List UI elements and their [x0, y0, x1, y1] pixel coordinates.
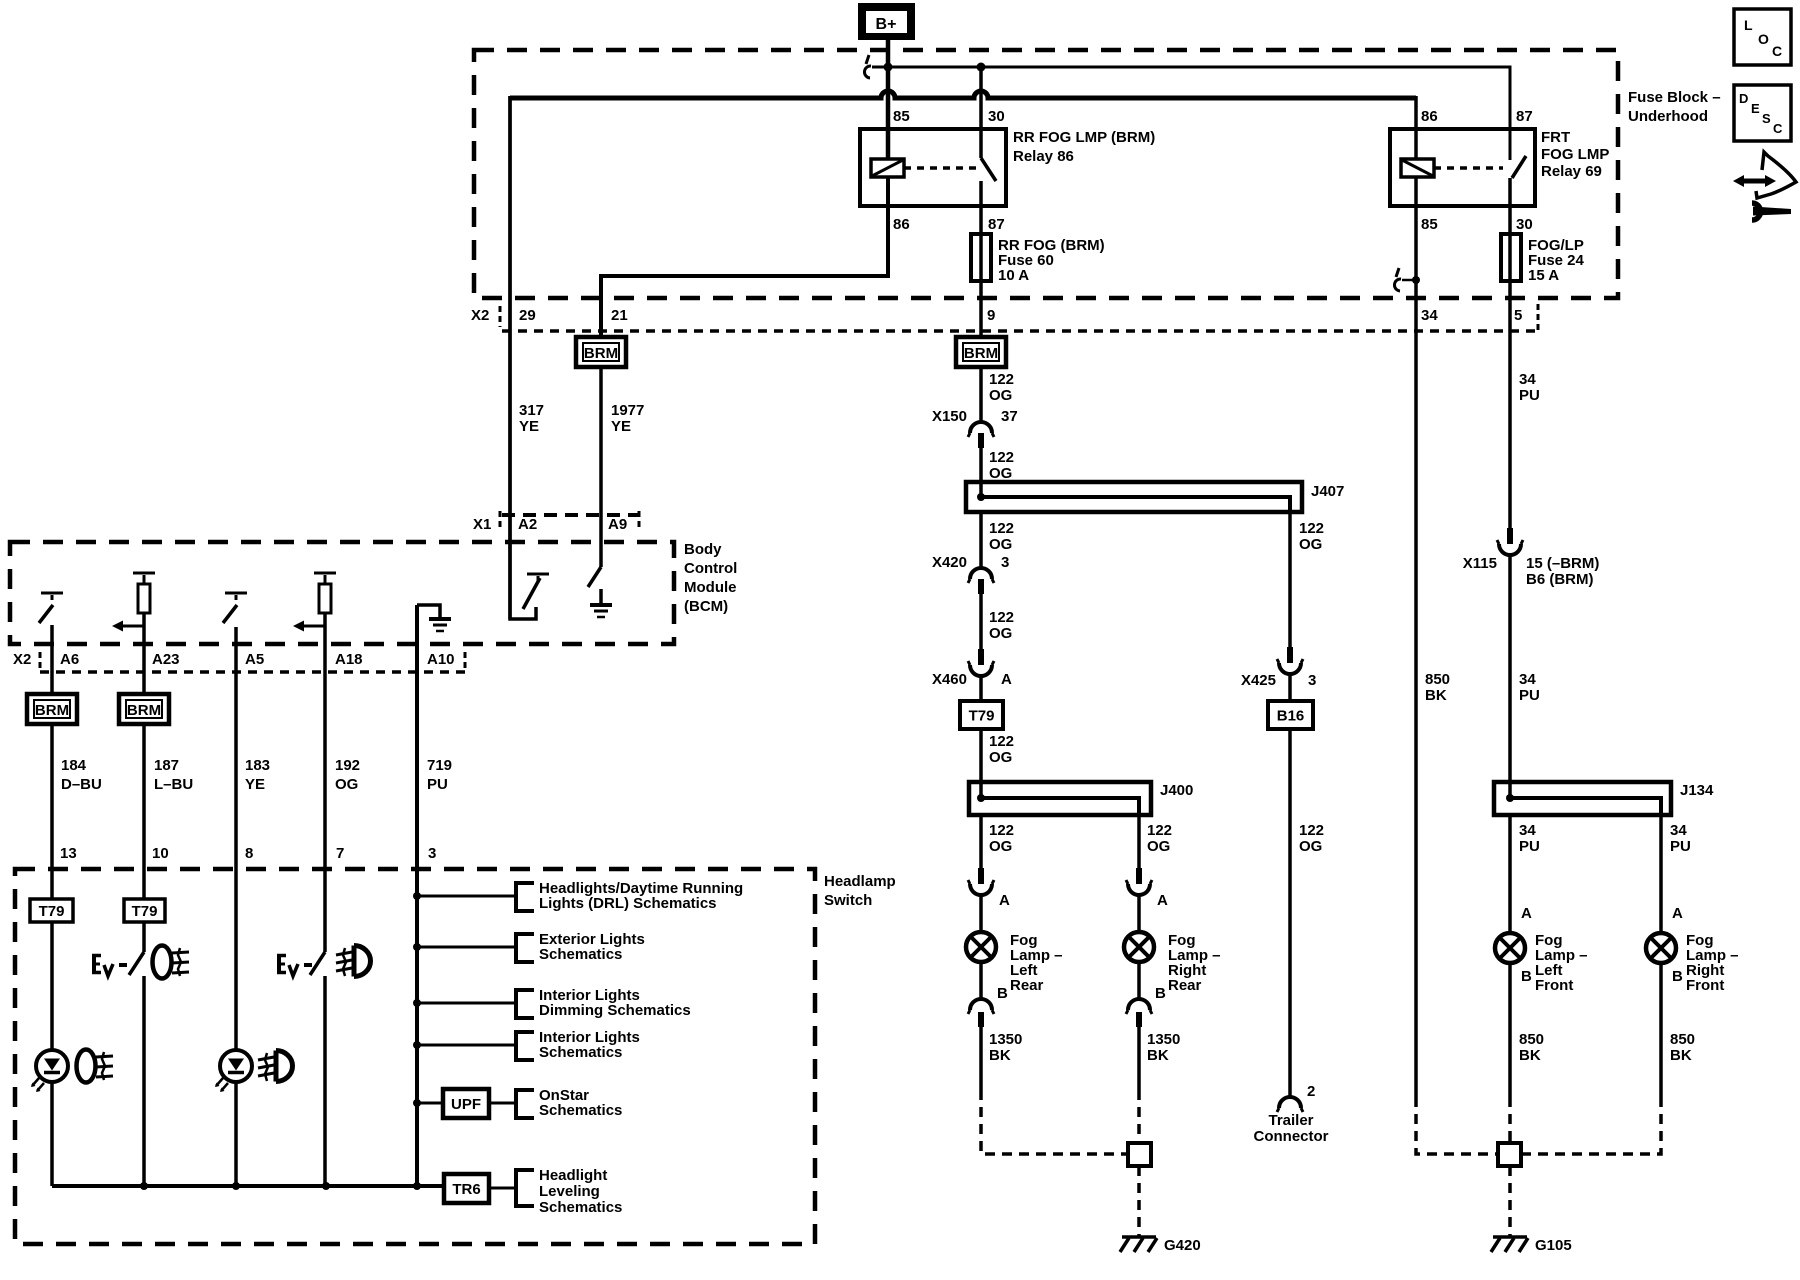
headlight symbol pin 13 — [77, 1050, 96, 1083]
svg-text:Underhood: Underhood — [1628, 108, 1708, 125]
connector fog lamp left rear pin B — [970, 999, 992, 1010]
wire relay 86 pin 87 to fuse 60 — [979, 181, 983, 337]
svg-text:BRM: BRM — [127, 702, 161, 719]
wire 850 BK right front — [1659, 963, 1663, 1097]
svg-text:Fuse Block –: Fuse Block – — [1628, 89, 1721, 106]
svg-text:D: D — [1739, 91, 1748, 106]
svg-text:29: 29 — [519, 307, 536, 324]
wire A10 down — [415, 605, 419, 1186]
svg-text:122: 122 — [1299, 822, 1324, 839]
BCM input A2 switch — [510, 96, 536, 619]
continuation hook at relay 69 pin 85 — [1396, 268, 1399, 277]
ground junction box G105 — [1498, 1143, 1521, 1166]
svg-text:YE: YE — [519, 418, 539, 435]
svg-text:850: 850 — [1425, 671, 1450, 688]
wire A23 to BRM — [143, 580, 146, 584]
svg-text:34: 34 — [1519, 822, 1536, 839]
svg-text:2: 2 — [1307, 1083, 1315, 1100]
connector X2 jog right — [1537, 304, 1540, 331]
wire pin 3 branch interior dimming — [417, 1002, 516, 1005]
svg-text:34: 34 — [1519, 371, 1536, 388]
terminal TR6 — [444, 1174, 489, 1203]
svg-text:5: 5 — [1514, 307, 1522, 324]
relay RR FOG LMP Relay 86 box — [860, 129, 1006, 206]
svg-text:T79: T79 — [39, 903, 65, 920]
connector X2 BCM jog right — [464, 652, 467, 672]
BCM driver A9 to ground — [588, 567, 601, 587]
wire B+ to relay 69 pin 87 — [872, 67, 1510, 160]
svg-text:15 (–BRM): 15 (–BRM) — [1526, 555, 1599, 572]
wire pin 3 branch OnStar — [417, 1102, 443, 1105]
wire relay 69 pin 85 down — [1414, 177, 1418, 1097]
terminal B16 — [1268, 701, 1313, 729]
icon LOC — [1734, 9, 1791, 65]
wire 1350 BK left rear — [979, 1027, 983, 1090]
connector fog lamp right rear pin B — [1128, 999, 1150, 1010]
splice pack J400 — [969, 782, 1151, 815]
svg-text:86: 86 — [893, 216, 910, 233]
svg-text:A6: A6 — [60, 651, 79, 668]
connector X2 strip dotted line — [502, 329, 1538, 333]
svg-text:YE: YE — [611, 418, 631, 435]
BCM output A23 driver — [133, 572, 155, 575]
terminal T79 pin 13 — [30, 899, 73, 922]
svg-text:192: 192 — [335, 757, 360, 774]
wire relay 86 coil feed bus with hops — [510, 91, 1416, 98]
svg-text:C: C — [1773, 121, 1783, 136]
svg-text:122: 122 — [989, 733, 1014, 750]
wire 34 PU right front — [1659, 815, 1663, 933]
svg-text:X115: X115 — [1463, 555, 1497, 572]
indicator LED pin 8 — [220, 1050, 252, 1082]
svg-text:1350: 1350 — [989, 1031, 1022, 1048]
svg-text:122: 122 — [1299, 520, 1324, 537]
svg-text:(BCM): (BCM) — [684, 598, 728, 615]
svg-text:L: L — [1744, 17, 1753, 33]
wire A5 down — [234, 627, 238, 1050]
svg-text:Schematics: Schematics — [539, 1044, 622, 1061]
svg-text:BK: BK — [1519, 1047, 1541, 1064]
dashed lead to G420 — [1137, 1166, 1141, 1236]
connector X1 jog left — [499, 511, 502, 529]
svg-text:122: 122 — [1147, 822, 1172, 839]
svg-text:Rear: Rear — [1168, 977, 1202, 994]
fuse 24 — [1501, 234, 1521, 281]
wire 122 OG to J400 — [979, 729, 983, 798]
connector X1 strip dashed line — [502, 513, 638, 517]
splice pack J134 — [1494, 782, 1671, 815]
fog lamp right front — [1646, 933, 1676, 963]
svg-text:10 A: 10 A — [998, 267, 1029, 284]
svg-text:OG: OG — [989, 625, 1012, 642]
terminal UPF — [443, 1089, 489, 1118]
connector X420 — [970, 568, 992, 579]
dashed jumper right front to G105 — [1521, 1097, 1661, 1154]
dashed jumper left front to G105 — [1508, 1097, 1512, 1143]
svg-text:BK: BK — [1670, 1047, 1692, 1064]
svg-text:PU: PU — [427, 776, 448, 793]
switch pin 7 — [310, 952, 325, 975]
svg-text:A: A — [1672, 905, 1683, 922]
indicator LED pin 13 — [36, 1050, 68, 1082]
svg-text:15 A: 15 A — [1528, 267, 1559, 284]
svg-text:B: B — [1155, 985, 1166, 1002]
connector X1 jog right — [638, 511, 641, 529]
svg-text:122: 122 — [989, 520, 1014, 537]
svg-text:B6 (BRM): B6 (BRM) — [1526, 571, 1594, 588]
svg-text:Headlamp: Headlamp — [824, 873, 896, 890]
connector fog lamp right rear pin A — [1136, 868, 1142, 884]
svg-text:C: C — [1772, 43, 1782, 59]
svg-text:37: 37 — [1001, 408, 1018, 425]
svg-text:13: 13 — [60, 845, 77, 862]
wire below right rear lamp — [1137, 962, 1141, 1001]
relay 86 coil — [871, 159, 904, 177]
connector X425 — [1287, 647, 1293, 663]
wire 122 OG to X460 — [979, 594, 983, 649]
wire bus corner to relay 69 pin 86 — [1414, 96, 1418, 159]
svg-text:87: 87 — [1516, 108, 1533, 125]
headlight symbol pin 10 — [153, 946, 172, 979]
svg-text:B: B — [1521, 968, 1532, 985]
svg-text:BRM: BRM — [584, 345, 618, 362]
svg-text:OG: OG — [989, 465, 1012, 482]
BCM input A5 switch — [225, 592, 247, 595]
wire pin 13 to indicator — [50, 922, 54, 1050]
svg-text:34: 34 — [1670, 822, 1687, 839]
continuation hook at B+ — [866, 55, 869, 64]
fog lamp symbol pin 7 — [352, 946, 357, 977]
svg-text:A18: A18 — [335, 651, 363, 668]
switch pin 10 — [142, 922, 146, 952]
svg-text:184: 184 — [61, 757, 87, 774]
wire 850 BK left front — [1508, 963, 1512, 1097]
svg-text:D–BU: D–BU — [61, 776, 102, 793]
fog lamp left front — [1495, 933, 1525, 963]
svg-text:Leveling: Leveling — [539, 1183, 600, 1200]
ground G420 — [1122, 1235, 1156, 1239]
svg-text:TR6: TR6 — [452, 1181, 480, 1198]
fuse block underhood dashed border — [474, 50, 1618, 298]
Body Control Module dashed border — [10, 542, 674, 644]
svg-text:85: 85 — [893, 108, 910, 125]
svg-text:30: 30 — [1516, 216, 1533, 233]
svg-text:B16: B16 — [1277, 708, 1305, 725]
junction dot B+ — [884, 63, 893, 72]
svg-text:122: 122 — [989, 822, 1014, 839]
ground junction box G420 — [1128, 1143, 1151, 1166]
svg-text:OG: OG — [335, 776, 358, 793]
svg-text:122: 122 — [989, 609, 1014, 626]
svg-text:122: 122 — [989, 371, 1014, 388]
svg-text:OG: OG — [989, 838, 1012, 855]
dashed jumper right rear to G420 — [1137, 1090, 1141, 1143]
switch position symbol Ev pin 10 — [92, 954, 96, 974]
svg-text:A5: A5 — [245, 651, 264, 668]
svg-text:3: 3 — [1308, 672, 1316, 689]
svg-text:34: 34 — [1421, 307, 1438, 324]
svg-text:30: 30 — [988, 108, 1005, 125]
wire to left rear lamp — [979, 893, 983, 932]
svg-text:3: 3 — [1001, 554, 1009, 571]
svg-text:BK: BK — [1425, 687, 1447, 704]
svg-text:187: 187 — [154, 757, 179, 774]
connector X460 — [978, 649, 984, 665]
svg-text:X1: X1 — [473, 516, 491, 533]
svg-text:B+: B+ — [876, 16, 897, 33]
svg-text:E: E — [1751, 101, 1760, 116]
wire 122 OG to trailer — [1288, 512, 1292, 647]
svg-text:T79: T79 — [969, 708, 995, 725]
svg-text:Headlight: Headlight — [539, 1167, 607, 1184]
svg-text:L–BU: L–BU — [154, 776, 193, 793]
relay FRT FOG LMP Relay 69 box — [1390, 129, 1535, 206]
relay 69 coil — [1401, 159, 1434, 177]
svg-text:RR FOG LMP (BRM): RR FOG LMP (BRM) — [1013, 129, 1155, 146]
wire bus corner to X2 pin 29 — [508, 96, 512, 619]
svg-text:850: 850 — [1519, 1031, 1544, 1048]
svg-text:J400: J400 — [1160, 782, 1193, 799]
svg-text:Schematics: Schematics — [539, 946, 622, 963]
svg-text:1977: 1977 — [611, 402, 644, 419]
svg-text:Control: Control — [684, 560, 737, 577]
headlamp switch common bus — [52, 1184, 444, 1188]
svg-text:BK: BK — [1147, 1047, 1169, 1064]
svg-text:X150: X150 — [932, 408, 967, 425]
svg-text:X460: X460 — [932, 671, 967, 688]
svg-text:21: 21 — [611, 307, 628, 324]
wire 122 OG left rear — [979, 815, 983, 868]
svg-text:BRM: BRM — [35, 702, 69, 719]
icon DESC — [1734, 85, 1791, 141]
svg-text:PU: PU — [1519, 838, 1540, 855]
wire pin 3 branch exterior lights — [417, 946, 516, 949]
svg-text:G420: G420 — [1164, 1237, 1201, 1254]
svg-text:S: S — [1762, 111, 1771, 126]
svg-text:A23: A23 — [152, 651, 180, 668]
junction dot pin30 feed — [977, 63, 986, 72]
headlamp switch dashed border — [15, 869, 815, 1244]
svg-text:BK: BK — [989, 1047, 1011, 1064]
connector X115 — [1507, 528, 1513, 544]
dashed jumper left rear to G420 — [981, 1090, 1128, 1154]
svg-text:9: 9 — [987, 307, 995, 324]
svg-text:X2: X2 — [471, 307, 489, 324]
wire relay 86 pin 86 to BCM — [601, 177, 888, 337]
wire A6 to BRM — [50, 625, 54, 694]
svg-text:Relay 69: Relay 69 — [1541, 163, 1602, 180]
trailer connector — [1279, 1097, 1301, 1108]
wire 34 PU left front — [1508, 815, 1512, 933]
svg-text:O: O — [1758, 31, 1769, 47]
junction dot pin 85 — [1412, 276, 1420, 284]
svg-text:Relay 86: Relay 86 — [1013, 148, 1074, 165]
svg-text:Connector: Connector — [1254, 1128, 1329, 1145]
wire 122 OG to J407 — [979, 448, 983, 497]
svg-text:J407: J407 — [1311, 483, 1344, 500]
wire 122 OG right rear — [1137, 815, 1141, 868]
dashed lead to G105 — [1508, 1166, 1512, 1236]
svg-text:OG: OG — [989, 749, 1012, 766]
relay 86 link dashed — [904, 166, 977, 170]
splice pack J407 — [966, 482, 1302, 512]
BCM internal ground A9 — [590, 603, 612, 607]
svg-text:A9: A9 — [608, 516, 627, 533]
wire B+ vertical — [886, 40, 891, 159]
svg-text:FOG LMP: FOG LMP — [1541, 146, 1609, 163]
BCM internal ground A10 — [417, 605, 440, 618]
svg-text:850: 850 — [1670, 1031, 1695, 1048]
ground G105 — [1493, 1235, 1527, 1239]
svg-text:Module: Module — [684, 579, 737, 596]
wire 122 OG below J407 — [979, 512, 983, 567]
svg-text:Trailer: Trailer — [1268, 1112, 1313, 1129]
svg-text:OG: OG — [989, 536, 1012, 553]
svg-text:Switch: Switch — [824, 892, 872, 909]
svg-text:317: 317 — [519, 402, 544, 419]
fog lamp right rear — [1124, 932, 1154, 962]
svg-text:10: 10 — [152, 845, 169, 862]
svg-text:Schematics: Schematics — [539, 1102, 622, 1119]
connector X2 BCM jog left — [39, 652, 42, 670]
svg-text:A: A — [1521, 905, 1532, 922]
switch position symbol Ev pin 7 — [277, 954, 281, 974]
svg-text:A10: A10 — [427, 651, 455, 668]
BCM output A18 driver — [314, 572, 336, 575]
connector X2 jog left — [499, 306, 502, 327]
svg-text:OG: OG — [989, 387, 1012, 404]
svg-text:719: 719 — [427, 757, 452, 774]
svg-text:85: 85 — [1421, 216, 1438, 233]
fog lamp symbol pin 8 — [274, 1051, 279, 1082]
svg-text:Lights (DRL) Schematics: Lights (DRL) Schematics — [539, 895, 717, 912]
svg-text:OG: OG — [1299, 536, 1322, 553]
wire 34 PU to J134 — [1508, 553, 1512, 798]
relay 69 switch — [1512, 156, 1526, 178]
svg-text:A: A — [999, 892, 1010, 909]
wire 1350 BK right rear — [1137, 1027, 1141, 1090]
svg-text:OG: OG — [1147, 838, 1170, 855]
svg-text:Front: Front — [1535, 977, 1573, 994]
svg-text:7: 7 — [336, 845, 344, 862]
connector X2 BCM dotted line — [40, 670, 466, 674]
svg-text:G105: G105 — [1535, 1237, 1572, 1254]
wire 1977 YE — [599, 367, 603, 567]
fog lamp left rear — [966, 932, 996, 962]
terminal T79 rear — [960, 701, 1003, 729]
wire 122 OG from fuse 60 — [979, 367, 983, 424]
svg-text:PU: PU — [1670, 838, 1691, 855]
wire pin 3 branch DRL — [417, 895, 516, 898]
wire pin 3 branch interior lights — [417, 1044, 516, 1047]
svg-text:T79: T79 — [132, 903, 158, 920]
connector X150 — [970, 422, 992, 433]
svg-text:BRM: BRM — [964, 345, 998, 362]
wire relay 69 pin 30 to fuse 24 — [1508, 178, 1512, 528]
svg-text:FRT: FRT — [1541, 129, 1570, 146]
dashed jumper relay 85 to G105 — [1416, 1097, 1498, 1154]
svg-text:8: 8 — [245, 845, 253, 862]
svg-text:B: B — [1672, 968, 1683, 985]
BCM input A6 switch — [41, 592, 63, 595]
svg-text:Rear: Rear — [1010, 977, 1044, 994]
terminal BRM at A6 — [27, 694, 77, 724]
svg-text:A: A — [1001, 671, 1012, 688]
svg-text:PU: PU — [1519, 387, 1540, 404]
svg-text:86: 86 — [1421, 108, 1438, 125]
terminal T79 pin 10 — [124, 899, 165, 922]
wire to B16 — [1288, 673, 1292, 701]
fuse 60 — [971, 234, 991, 281]
relay 69 link dashed — [1434, 166, 1503, 170]
svg-text:B: B — [997, 985, 1008, 1002]
wire 122 OG to trailer connector — [1288, 729, 1292, 1097]
battery feed B+ — [858, 3, 915, 40]
terminal BRM at A23 — [119, 694, 169, 724]
svg-text:Dimming Schematics: Dimming Schematics — [539, 1002, 691, 1019]
svg-text:PU: PU — [1519, 687, 1540, 704]
connector fog lamp left rear pin A — [978, 868, 984, 884]
svg-text:X420: X420 — [932, 554, 967, 571]
wire to T79 — [979, 677, 983, 701]
svg-text:Front: Front — [1686, 977, 1724, 994]
svg-text:183: 183 — [245, 757, 270, 774]
svg-text:34: 34 — [1519, 671, 1536, 688]
svg-text:3: 3 — [428, 845, 436, 862]
svg-text:J134: J134 — [1680, 782, 1714, 799]
wire A23 pin 10 — [142, 724, 146, 899]
svg-text:OG: OG — [1299, 838, 1322, 855]
svg-text:A: A — [1157, 892, 1168, 909]
svg-text:1350: 1350 — [1147, 1031, 1180, 1048]
wire A6 pin 13 — [50, 724, 54, 899]
terminal BRM at X2-9 — [956, 337, 1006, 367]
icon wrench — [1752, 203, 1761, 220]
wire below left rear lamp — [979, 962, 983, 1001]
wire A18 down — [324, 580, 327, 584]
svg-text:UPF: UPF — [451, 1096, 481, 1113]
svg-text:X2: X2 — [13, 651, 31, 668]
svg-text:A2: A2 — [518, 516, 537, 533]
relay 86 switch — [979, 67, 983, 158]
svg-text:Schematics: Schematics — [539, 1199, 622, 1216]
terminal BRM at X2-21 — [576, 337, 626, 367]
svg-text:Body: Body — [684, 541, 722, 558]
svg-text:X425: X425 — [1241, 672, 1276, 689]
svg-text:122: 122 — [989, 449, 1014, 466]
icon navigation arrows — [1742, 179, 1767, 184]
svg-text:YE: YE — [245, 776, 265, 793]
svg-text:87: 87 — [988, 216, 1005, 233]
